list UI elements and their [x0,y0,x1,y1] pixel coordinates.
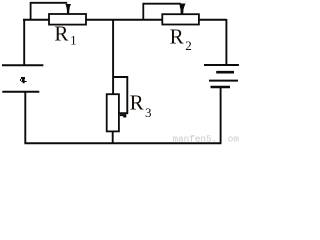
capacitor C polarity mark [20,77,27,83]
battery BT1 bottom short plate (negative) [211,86,231,88]
R2 slider arrowhead [179,4,185,15]
wire middle branch (top rail down to R3) [112,19,114,95]
wire R3 slider arm [113,77,127,113]
wire bottom horizontal [24,142,221,144]
svg-text:3: 3 [145,105,152,120]
R1 slider arrowhead [65,4,71,14]
wire left branch top (rail down to capacitor) [23,19,25,65]
capacitor C bottom plate [2,91,39,93]
svg-text:R: R [130,91,144,115]
battery BT1 top long plate (positive) [204,64,239,66]
battery BT1 second long plate (positive) [209,80,238,82]
wire R2 slider loop [143,4,181,20]
R3 slider arrowhead [120,114,126,117]
capacitor C top plate [2,64,43,66]
wire R1 slider loop [31,3,68,20]
svg-text:2: 2 [185,38,192,53]
svg-text:om: om [228,133,240,144]
battery BT1 first short plate (negative) [216,71,234,74]
resistor R2 body [162,14,199,24]
wire top horizontal (node A: R1-R2 rail) [23,19,227,21]
wire R3 bottom lead [112,131,114,143]
svg-text:R: R [54,21,68,45]
wire left branch bottom [24,92,26,143]
wire right branch top (rail down to battery plus) [225,19,227,65]
svg-text:1: 1 [70,32,77,47]
resistor R3 body [107,94,119,131]
svg-text:R: R [170,25,184,49]
wire right branch bottom (battery minus to bottom rail) [220,87,222,142]
resistor R1 body [49,14,86,25]
